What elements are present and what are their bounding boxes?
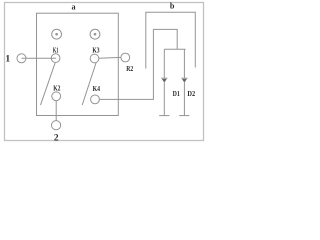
contact K3 arm bbox=[82, 63, 96, 105]
svg-text:R2: R2 bbox=[126, 64, 133, 73]
svg-text:D1: D1 bbox=[173, 89, 180, 98]
contact K1 arm bbox=[41, 63, 56, 105]
border frame bbox=[5, 3, 204, 141]
svg-text:a: a bbox=[72, 2, 76, 11]
svg-text:K4: K4 bbox=[93, 84, 100, 93]
svg-text:K3: K3 bbox=[92, 45, 99, 54]
coil terminal circle right bbox=[90, 29, 100, 39]
diode D1 bbox=[159, 49, 169, 115]
wire terminal 1 to K1 bbox=[22, 57, 56, 59]
contact K4 circle bbox=[91, 95, 100, 104]
svg-text:D2: D2 bbox=[187, 89, 195, 98]
diode D2 bbox=[179, 49, 189, 115]
contact K2 circle bbox=[52, 92, 61, 101]
coil terminal circle left bbox=[52, 29, 62, 39]
wire K3 to R2 bbox=[99, 56, 121, 59]
terminal 1 circle bbox=[17, 54, 26, 63]
svg-text:b: b bbox=[170, 2, 175, 11]
relay body box a bbox=[37, 13, 119, 115]
wire K4 to node b network bbox=[99, 29, 177, 99]
bridge wire connecting D1 and D2 tops bbox=[164, 48, 185, 50]
svg-text:1: 1 bbox=[5, 53, 10, 64]
wire K2 to terminal 2 bbox=[55, 101, 57, 121]
svg-text:2: 2 bbox=[54, 134, 59, 144]
svg-text:K1: K1 bbox=[53, 45, 59, 54]
contact K1 circle bbox=[51, 54, 60, 63]
outer open rectangle of b network bbox=[146, 12, 196, 68]
contact K3 circle bbox=[90, 54, 99, 63]
terminal 2 circle bbox=[52, 121, 61, 130]
svg-text:K2: K2 bbox=[53, 84, 60, 93]
terminal R2 circle bbox=[121, 53, 130, 62]
